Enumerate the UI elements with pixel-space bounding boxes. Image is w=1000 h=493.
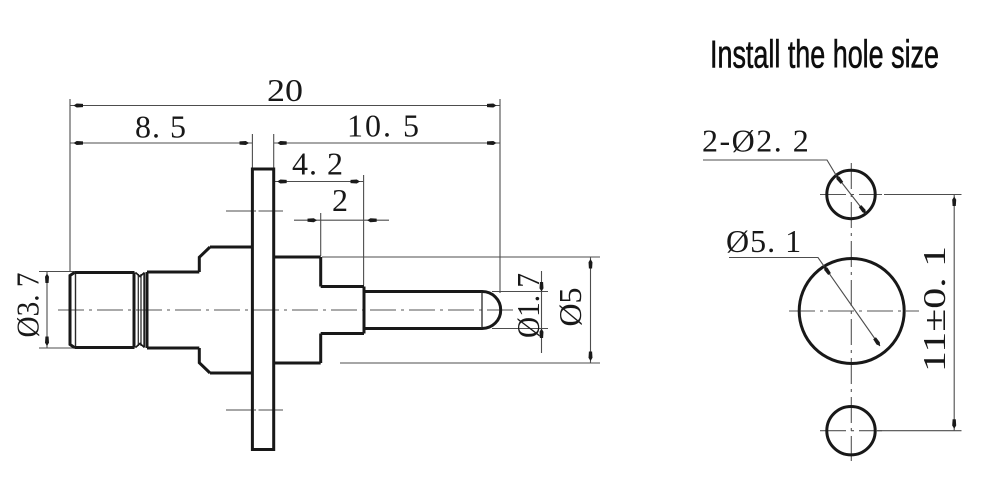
- top hole horizontal centerline: [820, 194, 882, 196]
- svg-text:2: 2: [332, 182, 348, 218]
- big center hole circle: [799, 259, 904, 364]
- extension line flange left edge: [251, 134, 253, 168]
- main body section: [210, 247, 252, 373]
- big hole horizontal centerline: [789, 310, 919, 312]
- vertical centerline of hole pattern: [850, 163, 852, 461]
- dim 11 +/- 0.1: [876, 195, 962, 431]
- dim line 8.5: [70, 109, 252, 146]
- bottom hole horizontal centerline: [820, 430, 882, 432]
- leader and label dia5.1: [726, 223, 880, 346]
- dim diameter 3.7: [10, 272, 77, 349]
- extension line left of 20 and 8.5: [69, 99, 71, 271]
- svg-text:Ø5: Ø5: [552, 287, 588, 326]
- groove rings: [136, 272, 148, 348]
- dim line 20: [70, 72, 500, 108]
- extension line right of 20 and 10.5: [499, 99, 501, 293]
- step and taper to body: [199, 247, 210, 373]
- body section right of flange (diameter 5): [274, 257, 321, 363]
- svg-text:20: 20: [267, 72, 303, 108]
- middle insulator section: [321, 287, 364, 334]
- extension line at x=363.6: [363, 175, 365, 285]
- dim line 2 (arrows outside): [294, 182, 389, 222]
- extension line flange right edge: [273, 134, 275, 168]
- top mounting hole circle: [827, 170, 875, 218]
- second cylinder: [147, 272, 199, 348]
- centerline of connector axis: [58, 309, 513, 311]
- bottom mounting hole circle: [827, 407, 875, 455]
- flange: [252, 169, 273, 450]
- svg-text:8. 5: 8. 5: [135, 109, 187, 145]
- svg-text:Ø1. 7: Ø1. 7: [510, 273, 546, 338]
- svg-text:Ø5. 1: Ø5. 1: [726, 223, 802, 259]
- flange hole center mark top: [226, 210, 283, 212]
- dim line 10.5: [274, 108, 500, 146]
- svg-text:11±0. 1: 11±0. 1: [916, 246, 952, 372]
- svg-text:4. 2: 4. 2: [292, 146, 344, 182]
- connector body outline: left coupling cylinder: [70, 273, 135, 348]
- flange hole center mark bottom: [226, 409, 283, 411]
- extension line at x=320.7: [320, 213, 322, 256]
- leader and label 2-dia2.2: [702, 123, 866, 214]
- svg-text:2-Ø2. 2: 2-Ø2. 2: [702, 123, 810, 159]
- svg-text:Install the hole size: Install the hole size: [710, 34, 939, 77]
- svg-text:Ø3. 7: Ø3. 7: [10, 273, 46, 338]
- center pin with rounded tip: [364, 291, 501, 328]
- svg-text:10. 5: 10. 5: [347, 108, 421, 144]
- dim diameter 1.7 (arrows outside): [492, 271, 548, 353]
- dim line 4.2: [274, 146, 364, 184]
- dim diameter 5: [322, 257, 600, 363]
